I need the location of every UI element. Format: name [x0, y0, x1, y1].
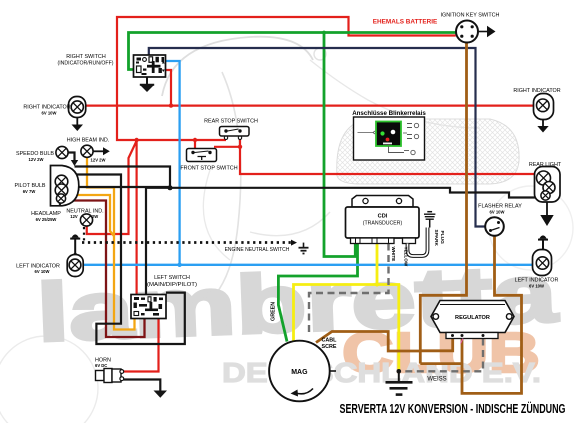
svg-text:(MAIN/DIP/PILOT): (MAIN/DIP/PILOT) — [147, 282, 197, 288]
rear light — [535, 167, 561, 227]
svg-text:RIGHT INDICATOR: RIGHT INDICATOR — [513, 88, 560, 94]
svg-text:2W: 2W — [92, 214, 98, 219]
ground engine neutral switch — [299, 243, 309, 254]
wire red indicator line left-to-right — [86, 104, 534, 106]
node junction front stop drop — [193, 138, 197, 142]
svg-text:REAR STOP SWITCH: REAR STOP SWITCH — [204, 119, 258, 125]
wire red stop light line to rear light — [240, 147, 535, 174]
svg-text:SPARK: SPARK — [433, 230, 439, 247]
wire black pilot feed with arrow into headlamp — [79, 186, 170, 188]
rear stop switch — [220, 127, 250, 140]
wire red from right switch down to indicator line — [166, 70, 172, 106]
svg-text:MAG: MAG — [291, 369, 308, 376]
svg-text:12V: 12V — [70, 214, 78, 219]
right indicator (handlebar) — [69, 97, 86, 132]
svg-text:ENGINE NEUTRAL SWITCH: ENGINE NEUTRAL SWITCH — [225, 247, 290, 253]
svg-text:12V 2W: 12V 2W — [91, 158, 106, 163]
high beam indicator — [81, 145, 110, 157]
wire green drop to CDI — [324, 33, 355, 257]
svg-text:SCRE: SCRE — [322, 344, 337, 350]
wire red to front stop switch — [194, 140, 196, 149]
ground arrow above left indicator rear — [538, 235, 548, 249]
left switch SW2 (main/dip/pilot) — [131, 295, 166, 319]
node junction switch drop on indicator line — [169, 103, 173, 107]
ground below horn — [154, 391, 168, 398]
svg-text:GREEN: GREEN — [271, 302, 277, 321]
svg-text:YELLOW: YELLOW — [404, 247, 409, 267]
Anschluesse Blinkerrelais box — [354, 117, 425, 160]
ignition key switch — [456, 21, 496, 43]
svg-text:WHITE: WHITE — [391, 247, 396, 262]
wire brown ignition feed — [420, 43, 466, 364]
node junction stop light — [238, 145, 242, 149]
svg-text:Anschlüsse Blinkerrelais: Anschlüsse Blinkerrelais — [352, 110, 426, 117]
svg-text:6V 7W: 6V 7W — [23, 189, 36, 194]
ground below right switch — [140, 77, 154, 85]
svg-text:6V 10W: 6V 10W — [490, 210, 505, 215]
node junction black headlamp — [168, 185, 173, 190]
wire weiss dashed regulator to ground point — [400, 339, 483, 372]
wire light blue indicator line left-to-right — [83, 264, 532, 266]
wire red junction to front stop switch right — [214, 146, 240, 148]
svg-text:6V 10W: 6V 10W — [42, 111, 57, 116]
speedo bulb — [56, 146, 68, 158]
svg-text:(TRANSDUCER): (TRANSDUCER) — [363, 221, 403, 227]
svg-text:EHEMALS BATTERIE: EHEMALS BATTERIE — [373, 19, 438, 26]
svg-text:12V 2W: 12V 2W — [29, 157, 44, 162]
svg-text:(INDICATOR/RUN/OFF): (INDICATOR/RUN/OFF) — [58, 60, 114, 66]
svg-text:FRONT STOP SWITCH: FRONT STOP SWITCH — [180, 166, 237, 172]
dotted engine neutral wire from neutral indicator — [83, 227, 85, 242]
wire yellow CDI to ground — [377, 244, 399, 372]
ground main battery-style near magneto — [386, 371, 413, 394]
wire black headlamp main bulb loop around left switch — [68, 175, 185, 345]
svg-text:CDI: CDI — [378, 214, 388, 220]
wire red branch to neutral indicator — [87, 140, 137, 234]
wire green right switch to ignition key switch — [129, 33, 456, 70]
wire red to left switch top — [136, 140, 138, 295]
wire maroon headlamp to left switch — [64, 201, 145, 338]
wire orange high beam to left switch — [87, 158, 135, 330]
neutral indicator — [80, 214, 92, 226]
node junction yellow branch — [375, 283, 379, 287]
engine neutral switch arrow end — [291, 240, 297, 246]
wire brown magneto cable screen — [316, 332, 420, 352]
wire yellow to magneto — [294, 285, 378, 342]
wire red battery feed: top loop from stop-switch line to ignition key switch — [117, 17, 456, 140]
arrow into headlamp from speedo line — [71, 160, 78, 166]
wire brown branch to regulator pin1 — [420, 339, 452, 351]
svg-text:SERVERTA 12V KONVERSION - INDI: SERVERTA 12V KONVERSION - INDISCHE ZÜNDU… — [340, 401, 566, 416]
ground arrow above left indicator — [70, 234, 80, 256]
wire orange headlamp branch — [66, 195, 114, 236]
svg-text:IGNITION KEY SWITCH: IGNITION KEY SWITCH — [441, 13, 500, 19]
svg-text:REGULATOR: REGULATOR — [455, 315, 490, 321]
wire brown flasher relay loop to regulator pin2 — [462, 236, 522, 393]
svg-text:CABL: CABL — [322, 338, 338, 344]
spark plug with HT lead — [408, 212, 436, 256]
wire black headlamp line to junction and rear light — [75, 167, 536, 198]
wire red rear stop right terminal to junction — [239, 139, 241, 147]
headlamp with pilot/main bulbs — [51, 166, 79, 206]
wire black speedo bulb feed — [68, 153, 75, 161]
wire navy right switch to flasher relay — [149, 48, 486, 227]
left indicator (handlebar) — [67, 255, 83, 277]
wire brown link to regulator pin2 leg — [420, 362, 462, 365]
svg-text:REAR LIGHT: REAR LIGHT — [529, 162, 562, 168]
node junction stop feed split — [134, 138, 138, 142]
wire light blue right switch drop — [166, 61, 180, 265]
right indicator (rear right) — [534, 94, 554, 133]
svg-text:HIGH BEAM IND.: HIGH BEAM IND. — [67, 138, 110, 144]
svg-text:6V DC: 6V DC — [95, 363, 107, 368]
front stop switch — [187, 149, 217, 162]
wire green CDI to magneto — [278, 244, 357, 342]
CDI transducer — [346, 196, 420, 244]
wire red left switch to horn — [123, 318, 159, 371]
node junction yellow weiss ground — [397, 369, 402, 374]
svg-text:6V 10W: 6V 10W — [35, 269, 50, 274]
horn — [96, 369, 124, 383]
svg-text:WEISS: WEISS — [427, 377, 446, 383]
wire black horn to ground — [124, 380, 161, 391]
wire black junction to left switch top — [146, 188, 170, 295]
magneto MAG — [269, 341, 336, 402]
node junction blue indicator line — [177, 263, 181, 267]
regulator — [431, 301, 514, 344]
node junction green top — [322, 31, 326, 35]
svg-text:6V 10W: 6V 10W — [529, 284, 544, 289]
svg-text:RIGHT SWITCH: RIGHT SWITCH — [66, 54, 106, 60]
flasher relay — [485, 217, 504, 236]
right switch SW1 (indicator/run/off) — [134, 55, 166, 77]
svg-text:6V 25/25W: 6V 25/25W — [36, 217, 57, 222]
svg-text:PLUG: PLUG — [439, 231, 445, 245]
svg-text:LEFT SWITCH: LEFT SWITCH — [154, 275, 190, 281]
wire white dashed CDI to magneto — [309, 244, 389, 337]
left indicator (rear) — [533, 250, 552, 276]
